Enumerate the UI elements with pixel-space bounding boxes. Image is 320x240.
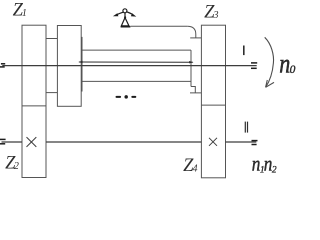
rail corner arc down xyxy=(187,26,196,38)
top rail from balance to right xyxy=(131,25,188,27)
speed arrow n0 arc xyxy=(265,37,274,87)
roller right step to box xyxy=(190,87,201,93)
svg-text:4: 4 xyxy=(193,164,198,175)
shaft II segment left xyxy=(2,141,23,143)
circle xyxy=(123,9,127,13)
shaft II segment middle xyxy=(46,141,201,143)
gearbox column left (Z1/Z2 housing) xyxy=(22,25,46,177)
svg-text:1: 1 xyxy=(22,8,27,19)
bearing lower-left xyxy=(0,138,6,140)
rail end tick xyxy=(190,37,201,39)
roller right end face xyxy=(190,50,192,86)
pivot triangle xyxy=(121,18,128,26)
cross mark gear Z4 on shaft II xyxy=(209,138,217,146)
roller left end face xyxy=(81,37,83,92)
svg-text:0: 0 xyxy=(290,64,296,76)
divider right column xyxy=(201,104,225,106)
roller top edge xyxy=(82,49,191,51)
ground hatch xyxy=(121,26,131,28)
stem xyxy=(124,13,126,17)
roller lower edge xyxy=(82,80,191,82)
double arrow across roller xyxy=(78,61,193,64)
gear block B upper-left xyxy=(57,26,81,107)
left rotate arrow xyxy=(117,12,123,14)
label n1 n2 xyxy=(252,153,261,176)
shaft II segment right xyxy=(226,141,257,143)
label shaft II xyxy=(245,122,246,133)
gearbox column right (Z3/Z4 housing) xyxy=(201,25,225,178)
svg-text:3: 3 xyxy=(213,10,219,21)
dots ellipsis xyxy=(116,95,137,99)
cross mark gear Z2 on shaft II xyxy=(27,137,37,147)
bearing lower-right xyxy=(252,140,258,142)
divider left column xyxy=(22,105,46,107)
shaft I xyxy=(2,65,256,67)
label shaft I xyxy=(243,46,245,56)
bearing upper-right xyxy=(251,62,257,64)
svg-text:2: 2 xyxy=(272,166,277,176)
svg-text:2: 2 xyxy=(14,161,19,172)
label n0 xyxy=(279,49,290,79)
link lower A-B xyxy=(46,92,57,94)
bearing upper-left xyxy=(1,63,5,65)
pivot dot xyxy=(124,16,126,18)
link upper A-B xyxy=(46,38,57,40)
balance/indicator symbol xyxy=(113,9,136,26)
right rotate arrow xyxy=(127,12,133,15)
